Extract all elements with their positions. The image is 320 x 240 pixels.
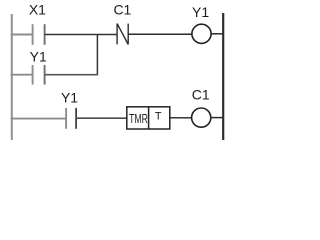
svg-text:Y1: Y1: [192, 4, 209, 20]
contact Y1 (seal-in, normally open): [33, 65, 45, 85]
left power rail: [11, 14, 13, 140]
wire rung2: coil C1 to right rail: [211, 117, 223, 119]
wire rung1: C1 to coil Y1: [128, 33, 192, 35]
svg-text:TMR: TMR: [129, 111, 148, 126]
coil Y1 (output): [192, 24, 211, 43]
svg-text:T: T: [155, 111, 162, 123]
contact C1 (normally closed): [117, 24, 128, 45]
svg-text:X1: X1: [29, 2, 46, 18]
wire branch: Y1 contact to junction: [45, 74, 99, 76]
wire rung2: Y1 contact to timer box: [76, 117, 127, 119]
wire rung1: coil Y1 to right rail: [211, 33, 223, 35]
timer TMR T box: [127, 107, 170, 129]
right power rail: [222, 13, 224, 140]
contact Y1 (rung2, normally open): [66, 108, 76, 129]
junction wire: vertical branch connector: [96, 35, 98, 75]
wire rung2: left rail to Y1 contact: [11, 118, 66, 120]
wire rung2: timer box to coil C1: [170, 117, 192, 119]
coil C1 (output): [192, 108, 211, 127]
wire branch: left rail to Y1 contact: [11, 74, 33, 76]
wire rung1: left rail to X1 contact: [11, 34, 33, 36]
svg-text:C1: C1: [113, 2, 131, 18]
svg-text:Y1: Y1: [61, 90, 78, 106]
contact X1 (normally open): [33, 24, 45, 45]
svg-text:Y1: Y1: [30, 48, 47, 64]
wire rung1: X1 to C1 contact: [45, 34, 118, 36]
svg-text:C1: C1: [192, 87, 210, 103]
